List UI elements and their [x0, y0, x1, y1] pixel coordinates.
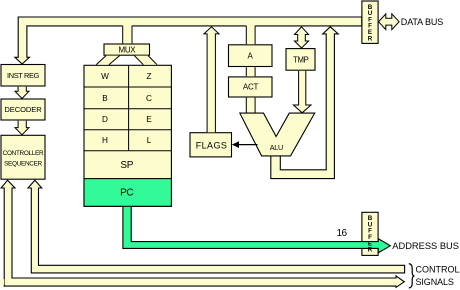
svg-text:E: E — [146, 115, 152, 124]
svg-text:H: H — [102, 136, 108, 145]
svg-text:DECODER: DECODER — [4, 105, 42, 114]
buffer (data bus) box — [362, 1, 378, 43]
register array grid lines — [84, 65, 171, 151]
wire: stub ACT to ALU — [246, 98, 256, 113]
instruction register box — [1, 65, 45, 87]
svg-text:D: D — [102, 115, 108, 124]
FLAGS box — [190, 133, 232, 157]
ALU V shape — [240, 113, 315, 156]
wire: ALU output loop to bus (arrow up) — [271, 27, 338, 179]
wire: stub A to ACT — [246, 67, 256, 76]
svg-text:INST REG: INST REG — [7, 71, 40, 80]
svg-text:PC: PC — [120, 188, 133, 199]
register array outer box — [84, 65, 171, 206]
register PC (green row) — [84, 179, 171, 207]
wire: control signal line 1 (upper, flat end) — [28, 180, 405, 273]
svg-text:SP: SP — [120, 160, 133, 171]
wire: left diagonal MUX to register array — [96, 56, 120, 65]
TMP box — [286, 49, 315, 71]
buffer (address bus) box — [362, 212, 378, 255]
wire: thin arrow ALU to FLAGS — [236, 144, 258, 146]
wire: arrow INST REG to DECODER — [15, 87, 29, 99]
wire: control signal line 2 (lower, arrow end) — [1, 180, 404, 287]
accumulator A box — [229, 45, 273, 67]
svg-text:W: W — [101, 72, 109, 81]
svg-text:SIGNALS: SIGNALS — [416, 277, 454, 287]
svg-text:R: R — [368, 35, 373, 42]
wire: right diagonal MUX to register array — [135, 56, 158, 65]
wire: edge smudge bottom-left — [0, 279, 4, 285]
svg-text:DATA BUS: DATA BUS — [401, 17, 443, 27]
svg-text:ACT: ACT — [243, 83, 259, 92]
svg-text:CONTROL: CONTROL — [416, 264, 460, 274]
svg-text:FLAGS: FLAGS — [196, 141, 228, 151]
svg-text:TMP: TMP — [293, 55, 309, 64]
decoder box — [1, 99, 45, 120]
wire: arrow DECODER to CONTROLLER — [15, 121, 29, 135]
MUX box — [104, 44, 150, 55]
svg-text:Z: Z — [146, 72, 151, 81]
wire: arrow TMP to ALU — [293, 71, 311, 113]
wire: double arrow bus to TMP — [295, 27, 309, 48]
svg-text:L: L — [147, 136, 152, 145]
svg-text:B: B — [102, 94, 108, 103]
svg-text:CONTROLLER: CONTROLLER — [3, 150, 44, 157]
wire: arrow FLAGS up to bus — [204, 27, 219, 132]
brace for control signals — [409, 264, 415, 288]
wire: internal data bus (top, with left drop and arrow into INST REG) — [15, 17, 362, 64]
svg-text:C: C — [146, 94, 152, 103]
wire: stub bus to MUX — [122, 25, 132, 44]
svg-text:16: 16 — [336, 228, 347, 239]
wire: double arrow buffer to data bus — [379, 14, 400, 30]
controller sequencer box — [1, 135, 45, 179]
svg-text:A: A — [248, 51, 254, 60]
wire: stub bus to A — [246, 25, 256, 45]
svg-text:SEQUENCER: SEQUENCER — [4, 161, 42, 168]
ACT box — [229, 77, 273, 97]
svg-text:ALU: ALU — [270, 143, 283, 152]
svg-text:R: R — [368, 247, 373, 254]
svg-text:ADDRESS BUS: ADDRESS BUS — [392, 241, 459, 251]
wire: PC to address bus (green) — [123, 207, 390, 253]
svg-text:MUX: MUX — [118, 46, 136, 55]
